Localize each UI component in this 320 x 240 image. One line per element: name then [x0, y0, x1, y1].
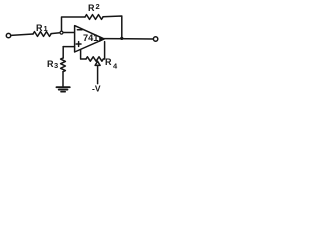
svg-text:R: R	[88, 3, 95, 13]
wire offset-null pin left	[81, 50, 86, 59]
wire R3 to ground	[62, 72, 64, 87]
svg-text:R: R	[36, 23, 43, 33]
svg-text:3: 3	[54, 61, 58, 70]
wire node A to op-amp inverting input	[63, 32, 74, 34]
wire R2 to output node	[103, 16, 122, 38]
svg-text:2: 2	[96, 2, 100, 11]
resistor R3	[61, 58, 66, 72]
resistor R2	[85, 15, 103, 20]
wire feedback riser	[62, 17, 86, 31]
op-amp output apex arrowhead	[100, 37, 105, 42]
node B (feedback/output junction)	[121, 37, 124, 40]
svg-text:1: 1	[44, 24, 48, 33]
svg-text:R: R	[105, 57, 112, 67]
node A (junction, inverting input)	[60, 31, 63, 34]
wire down to R3	[62, 47, 64, 58]
potentiometer R4	[86, 57, 103, 61]
svg-text:R: R	[47, 59, 54, 69]
output terminal	[153, 37, 157, 41]
wire input to R1	[11, 34, 33, 35]
op-amp minus sign	[77, 29, 82, 31]
wire R1 to node A	[51, 32, 60, 35]
op-amp plus sign	[76, 42, 81, 47]
svg-text:741: 741	[83, 33, 98, 43]
wire non-inverting input	[63, 46, 74, 48]
op-amp U1 triangle	[75, 26, 105, 52]
resistor R1	[33, 32, 51, 37]
input terminal	[6, 33, 10, 37]
wire R4 to op-amp	[103, 42, 104, 59]
wire output	[104, 38, 153, 40]
wire wiper to -V	[97, 65, 99, 83]
wiper arrow of R4	[95, 61, 100, 65]
svg-text:-V: -V	[92, 84, 101, 94]
ground	[57, 86, 70, 88]
